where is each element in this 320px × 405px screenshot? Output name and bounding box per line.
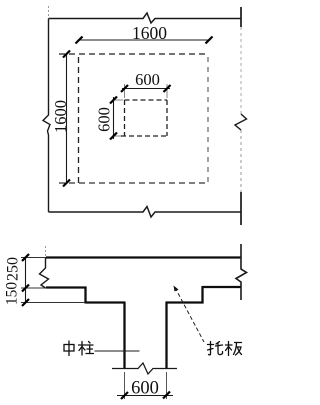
svg-text:600: 600	[131, 379, 159, 399]
section column left cut line	[123, 303, 125, 369]
dimension 600 inner left extension top	[112, 99, 123, 101]
label tuoban leader line	[175, 288, 204, 343]
dimension 600 inner left extension bottom	[112, 135, 121, 137]
column section dashed square top edge	[125, 99, 168, 101]
dimension 1600 left top tick	[63, 51, 70, 58]
dimension 600 bottom extension right	[166, 372, 168, 399]
section slab bottom extension line	[21, 287, 46, 289]
glyph zhu	[79, 342, 94, 356]
section column right cut line	[165, 303, 167, 369]
dimension 1600 left bottom tick	[63, 180, 70, 187]
dimension 600 bottom extension left	[124, 372, 126, 399]
drop panel dashed square left edge	[78, 57, 80, 183]
dimension 600 inner left bottom tick	[110, 133, 117, 140]
svg-text:150: 150	[4, 282, 21, 306]
dimension 150 middle tick	[22, 285, 29, 292]
plan bottom object line with break	[49, 207, 242, 218]
section right break line with zigzag	[236, 244, 247, 300]
label zhongzhu text glyphs	[64, 341, 94, 356]
plan right end bar bottom	[240, 192, 242, 225]
glyph zhong	[64, 341, 74, 356]
plan right end bar top	[240, 7, 242, 27]
section drop bottom right cut line	[166, 301, 204, 303]
svg-text:250: 250	[5, 257, 22, 281]
section slab bottom left cut line	[46, 286, 87, 288]
column bottom break line with zigzag	[112, 363, 177, 374]
section left break line upper faint	[45, 246, 47, 257]
glyph tuo	[208, 342, 223, 355]
svg-text:1600: 1600	[132, 23, 167, 43]
section slab bottom right cut line	[203, 286, 242, 288]
dimension 600 inner top extension right	[166, 84, 168, 98]
section drop step right cut line	[201, 286, 203, 304]
column section dashed square right edge	[166, 100, 168, 136]
section drop bottom extension line	[21, 302, 85, 304]
plan top object line with break	[49, 13, 242, 23]
dimension 150 bottom tick	[22, 299, 29, 306]
drop panel dashed square right edge	[207, 57, 209, 183]
plan left object line with break	[43, 19, 50, 213]
glyph ban	[226, 342, 242, 356]
dimension 150 line	[25, 288, 27, 303]
dimension 1600 left line	[66, 54, 68, 183]
section drop bottom left cut line	[86, 301, 126, 303]
column section dashed square left edge	[124, 100, 126, 136]
dimension 600 bottom left tick	[121, 392, 128, 399]
plan left object line stub above corner	[48, 6, 50, 17]
dimension 600 inner left top tick	[110, 97, 117, 104]
dimension 1600 top line	[79, 39, 210, 41]
svg-text:1600: 1600	[51, 100, 70, 133]
svg-text:600: 600	[135, 70, 160, 89]
plan right break zigzag	[235, 114, 247, 130]
drop panel dashed square bottom edge	[59, 182, 208, 184]
drop panel outline dashed square top edge	[59, 53, 208, 55]
section slab top extension line	[21, 257, 46, 259]
dimension 600 bottom right tick	[163, 392, 170, 399]
plan right break line faint lower	[240, 130, 242, 192]
section drop step left cut line	[84, 287, 86, 304]
dimension 600 inner left line	[113, 97, 115, 139]
section slab top cut line	[46, 256, 241, 258]
dimension 600 inner top line	[122, 88, 170, 90]
dimension 250 top tick	[22, 254, 29, 261]
label tuoban text glyphs	[208, 342, 242, 356]
dimension 250 line	[25, 258, 27, 289]
dimension 1600 top left tick	[76, 37, 83, 44]
dimension 600 inner top right tick	[164, 85, 171, 92]
dimension 600 bottom line	[117, 395, 173, 397]
dimension 1600 top right tick	[206, 37, 213, 44]
dimension 600 inner top extension left	[124, 84, 126, 98]
section left break line with zigzag	[40, 258, 49, 288]
label tuoban leader arrowhead	[174, 286, 179, 292]
label zhongzhu leader line	[95, 350, 140, 352]
plan right break line faint	[240, 27, 242, 114]
dimension 600 inner top left tick	[121, 85, 128, 92]
svg-text:600: 600	[95, 107, 114, 132]
column section dashed square bottom edge	[121, 135, 169, 137]
